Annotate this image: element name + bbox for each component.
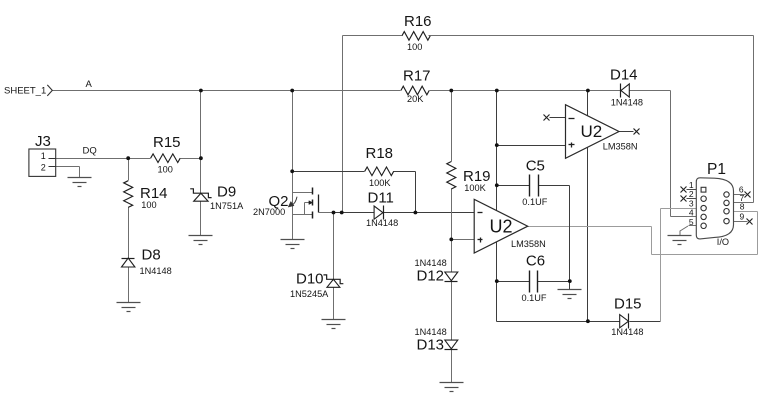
svg-text:D8: D8 [142,247,161,264]
svg-text:D9: D9 [217,184,236,201]
svg-text:1N4148: 1N4148 [415,327,447,337]
svg-text:LM358N: LM358N [511,239,546,249]
svg-text:1: 1 [41,151,46,161]
svg-text:D10: D10 [296,271,324,288]
svg-text:D13: D13 [417,337,445,354]
svg-text:SHEET_1: SHEET_1 [4,85,46,96]
svg-text:D11: D11 [368,190,394,207]
svg-text:DQ: DQ [83,145,97,156]
svg-text:A: A [86,79,93,90]
svg-text:1N4148: 1N4148 [611,98,643,108]
svg-text:D14: D14 [610,67,638,84]
svg-text:100K: 100K [369,178,391,188]
svg-text:C5: C5 [526,157,545,174]
svg-text:R15: R15 [153,134,181,151]
svg-text:2N7000: 2N7000 [253,207,285,217]
svg-text:2: 2 [41,162,46,172]
svg-text:9: 9 [740,211,745,221]
svg-text:8: 8 [740,202,745,212]
svg-text:D15: D15 [614,296,642,313]
svg-text:100K: 100K [464,183,486,193]
svg-text:C6: C6 [526,252,545,269]
svg-text:U2: U2 [581,122,603,141]
svg-text:0.1UF: 0.1UF [522,197,547,207]
svg-text:LM358N: LM358N [603,141,638,151]
svg-text:1N4148: 1N4148 [611,327,643,337]
svg-text:R16: R16 [404,13,432,30]
svg-text:1N5245A: 1N5245A [290,289,329,299]
svg-text:100: 100 [141,200,156,210]
svg-text:P1: P1 [707,161,726,178]
svg-text:20K: 20K [407,94,424,104]
svg-text:D12: D12 [417,267,445,284]
svg-text:1N4148: 1N4148 [366,218,398,228]
svg-text:I/O: I/O [717,237,729,247]
svg-text:U2: U2 [490,217,513,237]
svg-text:0.1UF: 0.1UF [522,293,547,303]
svg-text:1N751A: 1N751A [210,201,244,211]
svg-text:1N4148: 1N4148 [140,266,172,276]
svg-text:R18: R18 [366,145,394,162]
svg-text:5: 5 [689,217,694,227]
svg-text:100: 100 [407,42,422,52]
svg-text:R17: R17 [403,68,431,85]
svg-text:J3: J3 [35,133,51,150]
svg-text:100: 100 [158,165,173,175]
